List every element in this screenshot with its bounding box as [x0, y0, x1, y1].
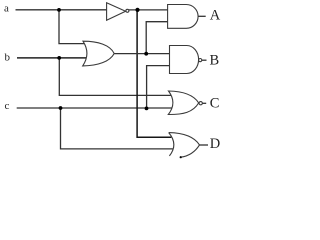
wire a horizontal [16, 9, 108, 11]
svg-text:B: B [210, 53, 220, 69]
or-gate D partial bottom edge [181, 145, 200, 157]
wire a vertical to OR1 top input [59, 10, 86, 44]
nand-gate B bubble [199, 59, 202, 62]
wire c vertical to NAND bottom input [147, 66, 170, 109]
svg-text:A: A [210, 7, 221, 23]
wire AND1 output [198, 15, 206, 17]
inverter U1 triangle [107, 3, 126, 21]
wire NOR output [203, 102, 207, 104]
wire b horizontal [17, 57, 87, 59]
wire b vertical to NOR top input [59, 58, 173, 96]
junction on a line [57, 8, 61, 12]
svg-text:c: c [5, 100, 10, 112]
wire NOT output vertical to OR2 top input (thick) [137, 10, 171, 138]
junction on c line right [145, 107, 149, 111]
junction on OR1 output [144, 52, 148, 56]
wire c horizontal [17, 107, 174, 109]
or-gate OR1 [83, 41, 115, 66]
wire NOT output to AND1 [129, 9, 168, 11]
svg-text:D: D [210, 136, 220, 152]
junction on b line [57, 56, 61, 60]
or-gate D top edge [169, 133, 200, 145]
junction on c line left [59, 106, 63, 110]
or-gate D concave left edge [169, 133, 174, 156]
wire OR2 output [200, 144, 209, 146]
or-gate D blob artifact [180, 156, 182, 158]
wire OR1 output to NAND top input [114, 53, 169, 55]
and-gate A [168, 5, 198, 29]
nor-gate C [168, 91, 198, 115]
svg-text:C: C [210, 96, 220, 112]
nand-gate B [170, 46, 199, 74]
svg-text:b: b [5, 51, 11, 63]
junction at NOT output [135, 8, 139, 12]
wire NAND output [202, 59, 207, 61]
wire c vertical to OR2 bottom input [61, 108, 173, 149]
wire OR1 output vertical to AND1 bottom input [146, 22, 168, 54]
nor-gate C bubble [199, 102, 202, 105]
svg-text:a: a [4, 2, 9, 14]
inverter U1 bubble [126, 9, 129, 12]
